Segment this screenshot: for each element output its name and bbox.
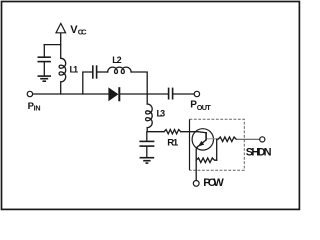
port PIN <box>27 91 32 96</box>
wire L3 down to R1 junction <box>147 128 164 132</box>
wire C2 to L2 <box>97 71 108 73</box>
capacitor C2 <box>93 65 97 78</box>
dashed IC boundary box <box>190 119 245 170</box>
wire branch to capacitor C1 <box>44 44 60 46</box>
wire C4 to POUT <box>173 93 194 95</box>
wire Vcc down to L1 <box>60 33 62 58</box>
svg-text:SHDN: SHDN <box>246 147 272 159</box>
wire Q1 emitter to POW <box>196 147 197 180</box>
inductor L3 <box>146 104 153 128</box>
wire Q1 to R2 (gray lead) <box>207 138 218 140</box>
capacitor C1 <box>38 45 51 76</box>
ground below C5 <box>140 158 155 163</box>
inductor L2 <box>108 67 131 73</box>
wire node B down to L3 <box>146 94 148 104</box>
diode D1 <box>109 87 121 101</box>
transistor Q1 <box>192 129 213 150</box>
port POW <box>193 181 199 187</box>
resistor R2 <box>218 137 236 142</box>
Vcc supply triangle <box>56 23 66 32</box>
resistor R3 <box>196 158 217 163</box>
wire R1 to Q1 <box>181 132 206 133</box>
wire R3 up to base node <box>216 139 218 160</box>
wire node A up to matching branch <box>83 72 93 94</box>
port SHDN <box>260 137 265 142</box>
ground below C1 <box>38 76 52 81</box>
wire L2 to node B <box>131 72 147 94</box>
wire diode to C4 <box>120 93 168 95</box>
svg-text:R1: R1 <box>167 137 179 148</box>
svg-text:OUT: OUT <box>197 103 212 112</box>
wire PIN to diode <box>33 93 109 95</box>
wire R2 to SHDN port <box>236 138 259 140</box>
svg-text:L3: L3 <box>157 109 166 119</box>
svg-text:IN: IN <box>34 103 41 112</box>
svg-text:POW: POW <box>203 177 224 189</box>
wire L1 to input line <box>60 82 62 94</box>
svg-text:L1: L1 <box>70 65 79 75</box>
capacitor C5 <box>139 132 154 158</box>
resistor R1 <box>164 130 181 134</box>
svg-text:CC: CC <box>78 28 87 37</box>
capacitor C4 <box>169 88 173 100</box>
inductor L1 <box>59 58 66 82</box>
svg-text:L2: L2 <box>112 55 121 65</box>
port POUT <box>194 91 199 96</box>
